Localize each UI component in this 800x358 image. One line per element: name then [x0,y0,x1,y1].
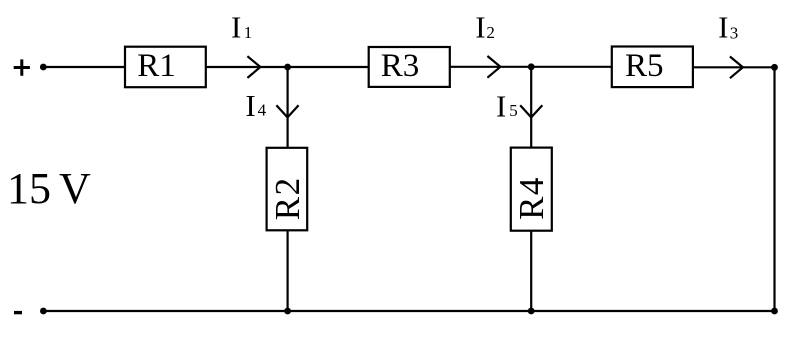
svg-text:V: V [59,164,91,213]
resistor R4 [511,148,552,231]
svg-text:2: 2 [486,23,495,42]
svg-text:1: 1 [244,23,253,42]
svg-text:I: I [496,89,506,124]
arrowhead I3 [730,57,743,79]
arrowhead I2 [487,56,500,78]
svg-text:R1: R1 [137,48,176,84]
wire: R1 to node A [206,66,288,68]
junction dot: + terminal [40,64,47,71]
wire: node A down to R2 [287,67,289,148]
svg-text:3: 3 [730,24,739,43]
wire: node B down to R4 [530,67,532,148]
wire: bottom rail (- terminal to bottom-right corner) [43,310,774,312]
terminal + (positive source terminal symbol) [14,59,30,75]
svg-text:R4: R4 [512,176,551,220]
wire: + terminal to R1 [43,66,125,68]
label I2 [475,10,495,45]
svg-text:I: I [245,88,255,123]
resistor R2 [267,148,308,231]
arrowhead I4 [276,105,298,117]
wire: R3 to node B [450,66,531,68]
svg-text:R3: R3 [381,48,420,84]
label I1 [231,10,252,45]
wire: R4 to bottom rail [530,231,532,311]
svg-text:R2: R2 [268,176,307,220]
wire: right rail from node C down to bottom-right corner [773,67,775,311]
junction dot: - terminal [40,308,47,315]
svg-text:I: I [718,10,728,45]
wire: R2 to bottom rail [287,230,289,311]
arrowhead I5 [520,105,542,117]
resistor R5 [612,47,693,88]
junction dot: bottom-right corner [771,308,778,315]
svg-text:I: I [475,10,485,45]
junction dot: R2 at bottom rail [284,308,291,315]
svg-text:5: 5 [509,101,518,120]
arrowhead I1 [247,56,260,78]
junction dot: R4 at bottom rail [528,308,535,315]
node C (junction dot, top-right corner) [771,64,778,71]
svg-text:I: I [231,10,241,45]
node B (junction dot after R3) [528,63,535,70]
node A (junction dot after R1) [284,64,291,71]
label I4 [245,88,266,123]
svg-text:R5: R5 [625,48,664,84]
label I3 [718,10,738,45]
wire: R5 to node C [693,66,775,68]
svg-text:15: 15 [7,164,51,213]
terminal - (negative source terminal symbol) [14,311,22,314]
resistor R3 [369,47,450,87]
wire: node A to R3 [288,66,369,68]
label I5 [496,89,518,124]
wire: node B to R5 [531,66,612,68]
resistor R1 [125,47,206,87]
svg-text:4: 4 [258,101,267,120]
